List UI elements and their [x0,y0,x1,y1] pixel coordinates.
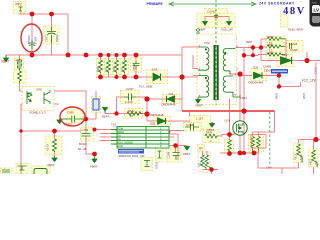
svg-text:CN4: CN4 [266,166,272,170]
svg-text:4R7: 4R7 [16,59,22,63]
small marks left box [158,151,162,158]
svg-text:GND: GND [117,144,123,148]
svg-text:48V: 48V [283,6,306,17]
diode D34 (fly) [153,73,161,81]
svg-text:1.35M: 1.35M [34,37,38,44]
fuse L top-left column [18,59,22,71]
svg-text:VBAT: VBAT [199,28,206,32]
svg-text:VBAT: VBAT [183,152,190,156]
wire rail y131 [21,130,81,132]
ic U12 left pin stubs [111,130,117,145]
selection highlight net 48V [271,69,288,74]
resistor stack right [266,37,286,43]
wire rail y113.5 [105,113,147,115]
svg-text:R547: R547 [128,109,135,113]
wire D35 out [263,76,279,87]
resistor stack right zigzags [267,37,285,40]
box small left [156,148,164,162]
svg-text:GND_24V: GND_24V [221,28,233,32]
transformer winding bottom-right [223,76,233,97]
capacitor CU98 [185,124,199,131]
divider dashed primary/secondary [215,0,217,105]
diode D16 [281,57,292,65]
wire L box drop [189,111,191,116]
marks D15b box [144,161,150,167]
wire resistor bank drops top [101,55,125,60]
box C199 [81,127,94,141]
svg-text:R041: R041 [268,44,274,47]
box blue resistor [92,97,101,113]
svg-text:Auto: Auto [312,0,318,4]
resistors R543 C43 [251,137,255,151]
box R5 [45,136,62,155]
svg-text:GA: GA [117,133,121,137]
resistor RB_R [297,144,302,163]
overlay panel [310,0,320,27]
box R474 [203,130,219,143]
VBAT arrow left of C595 [57,119,63,124]
wire x258 x282 drops [258,153,282,174]
node dots mid [144,96,149,101]
wire CU97 right [136,96,147,98]
wire to transformer pin2 [193,55,198,69]
wire x244 drop [243,111,245,153]
wire x316 long vertical [315,62,317,140]
node dots right column [304,58,309,63]
box R01 R02 [198,152,210,172]
wire opto right to C595 [54,91,86,119]
svg-text:C1098: C1098 [168,151,171,159]
wire transformer left lower pin [194,76,199,99]
transformer winding top-left [198,47,209,70]
box D16 [277,55,293,67]
svg-text:1R0: 1R0 [105,67,108,72]
svg-text:1350F: 1350F [264,69,272,73]
svg-text:24V SECONDARY: 24V SECONDARY [259,2,295,6]
svg-text:R040: R040 [268,36,274,39]
wire x307 up [306,52,308,61]
svg-text:C5463: C5463 [27,35,31,44]
box D35 [251,69,267,81]
box C5472 450uF [44,26,59,44]
wire RP2 drop [20,13,22,15]
node dots rail y77 [98,75,103,80]
wire left edge x21 [20,104,22,174]
wire x168 drop [167,132,169,146]
svg-text:LV: LV [314,7,320,12]
VBAT arrow near Q74 [210,122,215,127]
wire C199 bottom chain [86,137,95,155]
wire x147 vertical [146,97,148,121]
node dots rail y14 [30,12,35,17]
node dots rail y153 [227,151,232,156]
wire x253 [252,48,254,56]
transformer winding bottom-left [198,76,209,98]
svg-text:R02: R02 [199,162,202,167]
svg-text:1R0: 1R0 [315,160,318,165]
svg-text:R502: R502 [113,66,116,72]
svg-text:FLY_AEB: FLY_AEB [139,85,152,89]
svg-text:D15: D15 [150,122,156,126]
wire diode row1 [147,98,182,100]
svg-text:RB_R: RB_R [295,153,298,160]
wire D34 out to dot [162,76,198,78]
pin numbers blue [199,45,239,98]
svg-text:CMDSH448: CMDSH448 [248,81,263,85]
resistor R4R3 [228,140,232,152]
svg-text:SMLD: SMLD [117,130,124,134]
box diode row2 D15 [154,116,171,125]
box RP2 top-left [14,2,26,14]
transformer winding top-right [223,49,235,75]
wire x32 through ellipse [31,14,33,55]
svg-text:TX1: TX1 [111,123,117,127]
box C5427 under 48V [281,14,289,27]
svg-text:C5495: C5495 [263,65,272,69]
tiny symbol in RP2 box [19,7,23,11]
capacitor C5472 (electrolytic) [47,27,56,43]
svg-text:VBAT: VBAT [90,165,98,169]
box R873 [309,149,319,167]
svg-text:CU98: CU98 [186,123,194,127]
svg-text:PRIMARY: PRIMARY [147,2,164,6]
transformer box [197,34,237,105]
svg-text:1200F: 1200F [64,123,72,127]
diode row2 D15 [158,118,166,124]
box C1762 label [205,9,228,14]
green rounded box bottom-left [34,169,47,176]
svg-text:SCM6L1.3.3: SCM6L1.3.3 [29,111,46,115]
box R4R3 gate pulldown [225,140,234,154]
opto OP5 symbol [27,90,50,104]
annotation ellipse 2 [60,107,85,126]
capacitor C1208 [173,153,180,161]
VBAT arrow bottom mid [92,157,97,163]
resistor bank boxes [97,59,105,75]
wire opto left chain [19,55,21,87]
bottom-left small boxes [31,166,50,174]
box diode row1 [163,95,180,104]
wire rail y86.5 [279,82,301,87]
svg-text:1040P: 1040P [290,48,298,52]
wire x51.5 cap branch [51,14,53,55]
wire lower rail y77 [96,76,152,78]
resistors R01 R02 [201,155,206,170]
svg-text:RP2: RP2 [16,3,22,7]
VBAT arrow mid-bottom right [185,146,190,150]
diode D35 [254,72,263,78]
wire opto right bottom stub [54,103,59,105]
svg-text:VBAT: VBAT [1,60,9,64]
selection highlight U12 [118,149,144,154]
outline around R543 C43 [251,135,266,149]
svg-text:MOS_SENSE: MOS_SENSE [117,140,133,144]
svg-text:GND_48V0: GND_48V0 [288,28,304,32]
wire R873 chain [313,140,315,175]
wire main rail y55 [6,54,182,56]
svg-text:VCC_12V: VCC_12V [302,78,317,82]
box C1208 [167,148,182,162]
diode row1 CMDS4448 [167,96,175,102]
wire Q74 source [239,135,241,153]
box L 15T [190,116,211,130]
svg-text:2.2UF: 2.2UF [125,100,133,104]
node dots left bottom [19,129,22,132]
box VCC area small [271,41,284,52]
svg-text:CMDS4448: CMDS4448 [161,103,176,107]
svg-text:CU762: CU762 [207,10,216,14]
wire RB_R chain [298,140,300,169]
svg-text:BC1R: BC1R [79,142,86,146]
svg-text:R042: R042 [268,52,274,55]
wire x68 drop [67,14,69,55]
svg-text:10: 10 [130,114,134,118]
svg-text:R873: R873 [310,159,313,165]
svg-text:CU97: CU97 [126,87,134,91]
capacitor C5436 [290,43,292,49]
wire IC pin stubs left [94,130,112,141]
wire top rail y14 [19,13,68,15]
wire IC right stubs [169,131,184,138]
wire transformer right top pin out [236,47,262,49]
wire R5 top/bottom [54,131,56,156]
arrows in C1762 box [203,22,232,26]
svg-text:48V0: 48V0 [302,92,306,99]
annotation ellipse 1 [21,24,42,52]
box R547 [125,109,143,119]
box C595 in ellipse2 [66,109,83,123]
overlay white button [312,5,320,13]
box C1762 right [218,13,236,28]
wire resistor bank drops bottom [101,73,125,77]
capacitor x137 [133,61,140,69]
box C1762 left [197,13,215,28]
capacitor C199 [82,134,91,137]
boxes R543 C43 [249,135,258,153]
svg-text:48V3: 48V3 [275,92,279,99]
resistor vertical left column [18,71,22,83]
svg-text:POW: POW [117,126,124,130]
wire stack row pins [253,39,267,56]
svg-text:450UF: 450UF [55,34,59,42]
svg-text:DA: DA [117,137,121,141]
VBAT arrow left top [4,55,9,62]
svg-text:SEMICON_D200_U12: SEMICON_D200_U12 [119,154,146,158]
green squiggle transformer top [196,29,200,33]
wire VBAT mid drop [94,154,96,157]
wire x182 vertical [181,55,183,111]
svg-text:R1 .38: R1 .38 [78,147,87,151]
overlay gray button [312,16,320,23]
resistor R474 [205,134,218,138]
svg-text:D34: D34 [152,68,158,72]
svg-text:VBAT: VBAT [47,163,55,167]
node dots rail y55 [30,53,35,58]
wire Q74 drain [239,74,241,121]
svg-text:OP5: OP5 [36,88,42,92]
svg-text:CN24: CN24 [240,96,247,100]
resistor R547 [127,112,143,116]
wire step to transformer pin1 [182,47,198,55]
node dots transformer right [237,71,242,76]
divider dashed bottom right [269,112,271,165]
mosfet Q74 [233,121,247,135]
wire rail y168 [258,167,299,169]
wire stack right common [285,39,286,61]
svg-text:C5426: C5426 [289,42,298,46]
wire x261 [260,39,262,61]
wire x244 upper vertical [243,48,245,112]
svg-text:4R7: 4R7 [199,147,204,150]
green net stub near gate [233,95,240,97]
capacitor CU97 [124,94,136,101]
svg-text:D24: D24 [169,92,174,96]
ic U12 body [117,127,169,149]
box fuse L [15,58,24,70]
box R vertical left [14,70,27,83]
svg-text:Q74: Q74 [225,119,231,123]
arrow primary-secondary [169,3,256,5]
wire C595 node [86,113,97,134]
svg-text:C199: C199 [82,128,89,132]
wire y139.5 bottom right [299,139,320,141]
resistor bank zigzags [99,60,103,73]
svg-text:1R0: 1R0 [121,67,124,72]
box opto OP5 [22,87,54,111]
resistor R5 [53,139,57,152]
VBAT arrow under R5 [52,156,57,162]
svg-text:VBAT: VBAT [102,115,110,119]
wire D16 row [261,60,320,62]
svg-text:D35: D35 [253,66,259,70]
wire C199 top [85,119,87,134]
svg-text:CU76: CU76 [314,67,318,74]
wire C1762 bridge [205,17,229,22]
polarity dots [205,49,207,51]
wire y145.5 + cap drop [168,146,187,153]
wire gate node [217,131,234,136]
svg-text:C595: C595 [67,111,74,115]
wire y74 right of transformer [229,74,252,76]
wire CU97 left [117,97,125,114]
svg-text:R04D: R04D [246,41,252,44]
svg-text:VBAT: VBAT [207,128,214,132]
box FLY diode D34 [147,70,168,84]
wire y169.5 [203,170,219,175]
wire blue R drops [95,91,97,99]
VBAT arrow above rail y113 [103,107,108,114]
svg-text:R5 1K: R5 1K [46,144,50,151]
capacitor C5463 in ellipse [29,40,36,49]
VBAT arrow under transformer [196,98,201,103]
transformer TX2 core [215,45,218,100]
box C5436 [287,41,303,53]
wire x178 drop [177,134,179,160]
capacitor C595 [63,116,86,123]
box D15b bottom [141,158,153,171]
wire R01 R02 stubs [203,151,207,155]
wire opto pins [20,87,23,104]
svg-text:C5472: C5472 [45,34,49,42]
wire y55.3 [244,54,253,56]
box 4R7 small [198,145,205,152]
wire rail y153 [220,152,258,154]
svg-text:L 15T: L 15T [196,117,203,121]
resistor blue highlighted [93,99,99,110]
box CU97 [121,91,140,104]
svg-text:CMDS4448: CMDS4448 [149,113,164,117]
box CU98 [184,123,202,132]
wire x229.5 drop [229,99,231,154]
node dots rail y111 [241,108,246,113]
wire cap C x137 [135,55,137,77]
svg-text:C5496: C5496 [133,63,136,71]
resistor R873 [312,150,317,167]
svg-text:A7018: A7018 [156,161,159,169]
box RB_R [294,143,304,163]
wire diode row2 [147,120,190,122]
svg-text:5100: 5100 [300,154,303,160]
svg-text:VBAT: VBAT [195,104,203,108]
wire R543 C43 stubs [253,132,275,153]
wire x274.5 drop [274,111,276,132]
box cap C between rails [131,58,142,72]
node dot bottom right [313,137,318,142]
wire thick rail y111 [182,110,275,112]
svg-text:D16: D16 [282,53,288,57]
svg-text:TX2: TX2 [204,41,210,45]
svg-text:R500: R500 [97,66,100,72]
